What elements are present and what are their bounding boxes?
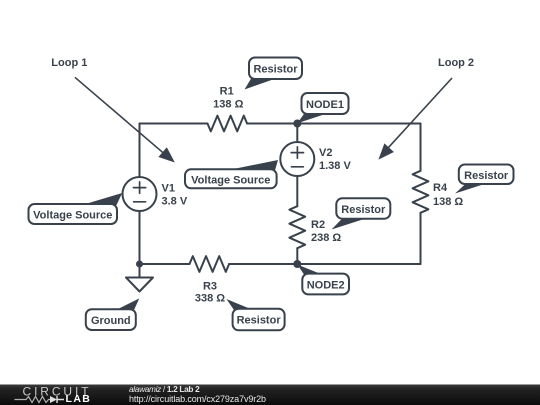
- label R2 value 238 Ω: [311, 232, 341, 244]
- label R1 value 138 Ω: [213, 99, 243, 111]
- voltage source V2: [280, 142, 314, 176]
- svg-text:LAB: LAB: [66, 393, 92, 405]
- callout Ground: [86, 298, 140, 330]
- svg-text:1.38 V: 1.38 V: [319, 160, 351, 172]
- svg-text:R1: R1: [220, 86, 234, 98]
- resistor R1: [208, 116, 248, 132]
- svg-text:Resistor: Resistor: [341, 204, 386, 216]
- svg-text:Resistor: Resistor: [237, 315, 282, 327]
- loop annotation Loop 1 text: [51, 57, 87, 69]
- svg-text:238 Ω: 238 Ω: [311, 232, 341, 244]
- loop annotation Loop 2 text: [438, 57, 474, 69]
- svg-text:Resistor: Resistor: [464, 170, 509, 182]
- wire R2 to NODE2 segment: [296, 248, 298, 264]
- label R2 name: [311, 219, 325, 231]
- resistor R3: [190, 256, 230, 272]
- callout Resistor (for R2): [332, 198, 391, 229]
- callout Resistor (for R3): [226, 299, 284, 330]
- wire top-right horizontal segment: [247, 123, 420, 125]
- svg-text:Loop 1: Loop 1: [51, 57, 87, 69]
- footer CircuitLab logo: [15, 385, 92, 405]
- label R4 value 138 Ω: [433, 196, 463, 208]
- callout NODE1: [297, 93, 348, 123]
- footer bar: [0, 385, 540, 405]
- wire top-left horizontal segment: [140, 123, 208, 125]
- label R3 value 338 Ω: [195, 293, 225, 305]
- label V2 name: [319, 147, 332, 159]
- svg-text:338 Ω: 338 Ω: [195, 293, 225, 305]
- node NODE2 junction dot: [293, 260, 301, 268]
- svg-text:R4: R4: [433, 182, 448, 194]
- bottom-left wire junction dot: [136, 261, 143, 268]
- label R1 name: [220, 86, 234, 98]
- wire bottom-left horizontal segment: [140, 263, 190, 265]
- ground: [126, 264, 153, 292]
- svg-text:V1: V1: [162, 182, 175, 194]
- loop 2 arrow: [378, 78, 452, 160]
- footer url text: [129, 394, 266, 404]
- wire right vertical upper segment: [420, 124, 422, 171]
- svg-text:R3: R3: [203, 280, 217, 292]
- wire left vertical lower segment: [139, 211, 141, 264]
- svg-text:3.8 V: 3.8 V: [162, 196, 188, 208]
- svg-text:Ground: Ground: [91, 315, 131, 327]
- svg-text:Voltage Source: Voltage Source: [191, 175, 270, 187]
- svg-text:NODE2: NODE2: [307, 280, 345, 292]
- svg-text:http://circuitlab.com/cx279za7: http://circuitlab.com/cx279za7v9r2b: [129, 394, 266, 404]
- label V2 value 1.38 V: [319, 160, 351, 172]
- svg-text:138 Ω: 138 Ω: [213, 99, 243, 111]
- wire bottom-right horizontal segment: [229, 263, 420, 265]
- svg-text:alawamiz / 1.2 Lab 2: alawamiz / 1.2 Lab 2: [129, 384, 200, 394]
- wire middle upper segment (NODE1 to V2): [296, 124, 298, 143]
- label R3 name: [203, 280, 217, 292]
- callout Voltage Source (for V2): [185, 160, 278, 188]
- resistor R4: [413, 171, 429, 213]
- resistor R2: [289, 206, 305, 248]
- svg-text:Voltage Source: Voltage Source: [33, 210, 112, 222]
- svg-text:138 Ω: 138 Ω: [433, 196, 463, 208]
- svg-text:R2: R2: [311, 219, 325, 231]
- wire left vertical upper segment: [139, 124, 141, 178]
- node NODE1 junction dot: [293, 120, 301, 128]
- callout NODE2: [297, 265, 349, 295]
- svg-text:NODE1: NODE1: [306, 99, 344, 111]
- loop 1 arrow: [75, 77, 175, 162]
- svg-text:Loop 2: Loop 2: [438, 57, 474, 69]
- callout Voltage Source (for V1): [29, 193, 123, 224]
- callout Resistor (for R4): [455, 165, 514, 194]
- wire V2 to R2 segment: [296, 176, 298, 206]
- label V1 name: [162, 182, 175, 194]
- voltage source V1: [123, 177, 157, 211]
- label V1 value 3.8 V: [162, 196, 188, 208]
- svg-text:Resistor: Resistor: [253, 64, 298, 76]
- callout Resistor (for R1): [245, 58, 303, 90]
- wire right vertical lower segment: [420, 213, 422, 264]
- svg-text:V2: V2: [319, 147, 332, 159]
- footer title text: [129, 384, 200, 394]
- label R4 name: [433, 182, 448, 194]
